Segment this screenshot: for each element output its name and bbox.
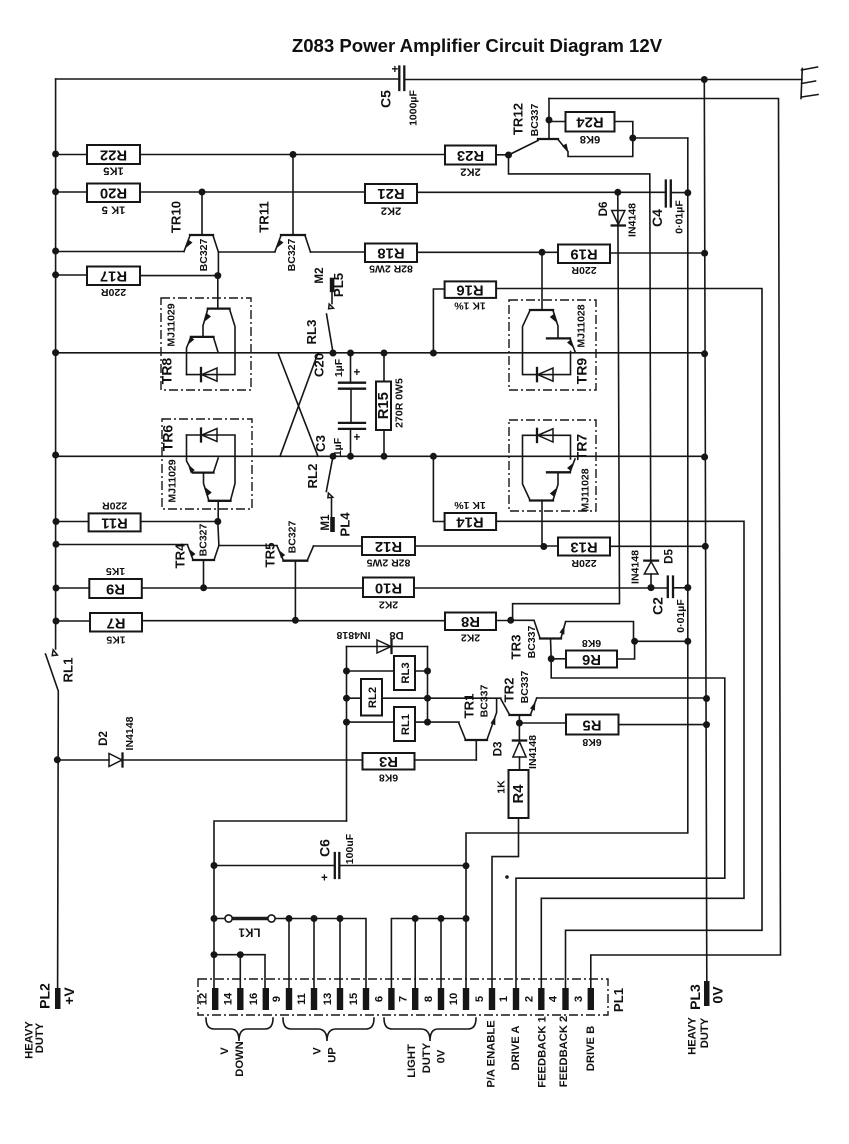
svg-text:DRIVE A: DRIVE A xyxy=(510,1026,522,1071)
svg-text:+: + xyxy=(321,872,328,885)
node rail-R20 xyxy=(52,188,59,195)
resistor R11 xyxy=(89,500,141,532)
relay contact RL2 xyxy=(305,456,333,517)
svg-text:RL2: RL2 xyxy=(305,464,320,489)
svg-text:4: 4 xyxy=(548,995,560,1002)
svg-text:PL5: PL5 xyxy=(331,273,346,297)
resistor R6 xyxy=(551,637,634,668)
node TR4c/TR6 base xyxy=(214,518,221,525)
wire pin13 drop xyxy=(339,919,341,989)
svg-text:220R: 220R xyxy=(101,286,127,298)
node TR11 collector xyxy=(290,151,297,158)
node pin14 top xyxy=(237,951,244,958)
darlington TR7 MJ11028 xyxy=(509,420,596,547)
pin 13 xyxy=(322,988,343,1010)
svg-text:1K5: 1K5 xyxy=(103,165,124,177)
pin 9 xyxy=(271,988,292,1010)
node rail row252 xyxy=(52,248,59,255)
node R15 bottom xyxy=(381,453,388,460)
svg-text:LK1: LK1 xyxy=(238,926,260,939)
svg-text:1K 1%: 1K 1% xyxy=(454,300,486,312)
resistor R8 xyxy=(445,613,496,644)
pin 14 xyxy=(223,988,244,1010)
svg-text:FEEDBACK 1: FEEDBACK 1 xyxy=(537,1016,549,1087)
wire drive A xyxy=(516,659,725,988)
svg-text:D2: D2 xyxy=(97,731,110,746)
svg-text:BC337: BC337 xyxy=(519,670,531,703)
svg-text:6: 6 xyxy=(374,996,386,1002)
svg-text:1µF: 1µF xyxy=(333,358,345,377)
node D6 top xyxy=(614,189,621,196)
wire +V top rail xyxy=(56,78,802,81)
node top 0V junction xyxy=(701,76,708,83)
svg-text:DOWN: DOWN xyxy=(234,1041,246,1076)
svg-text:BC337: BC337 xyxy=(529,103,541,136)
wire 0V rail vertical to PL3 xyxy=(704,80,707,982)
node R5 0V xyxy=(703,721,710,728)
svg-text:UP: UP xyxy=(327,1047,339,1063)
node C6 right xyxy=(463,862,470,869)
node RL2 right xyxy=(424,695,431,702)
svg-text:LIGHT: LIGHT xyxy=(406,1044,418,1078)
node TR10 collector row xyxy=(217,252,219,276)
pin PL4 M1 xyxy=(319,512,353,537)
darlington TR6 MJ11029 xyxy=(160,419,253,522)
svg-text:10: 10 xyxy=(448,993,460,1005)
wire row R22/R23 xyxy=(56,154,509,156)
svg-text:R22: R22 xyxy=(100,147,127,163)
svg-text:C20: C20 xyxy=(312,353,327,377)
node TR5 base xyxy=(292,617,299,624)
diode D8 xyxy=(336,629,427,653)
svg-text:R19: R19 xyxy=(570,245,597,261)
resistor R14 xyxy=(433,456,496,530)
svg-text:PL3: PL3 xyxy=(687,984,703,1010)
svg-text:220R: 220R xyxy=(102,500,128,512)
diode D3 xyxy=(492,723,540,770)
wire row 698 xyxy=(427,697,707,699)
wire pin7 drop xyxy=(414,919,416,989)
svg-text:RL3: RL3 xyxy=(400,662,412,683)
link LK1 xyxy=(225,915,275,939)
svg-text:1K 1%: 1K 1% xyxy=(454,499,486,511)
svg-text:R6: R6 xyxy=(582,651,601,667)
node row546 0V xyxy=(702,543,709,550)
svg-text:MJ11028: MJ11028 xyxy=(580,468,592,511)
svg-text:PL4: PL4 xyxy=(338,512,353,537)
svg-text:1K5: 1K5 xyxy=(106,565,125,577)
pin 2 xyxy=(524,988,545,1010)
svg-text:D5: D5 xyxy=(663,549,676,564)
svg-text:6K8: 6K8 xyxy=(582,736,601,748)
svg-text:HEAVY: HEAVY xyxy=(687,1017,699,1055)
wire row R17 xyxy=(56,274,218,277)
svg-text:R7: R7 xyxy=(107,614,126,630)
svg-text:C3: C3 xyxy=(313,435,328,452)
node row252 0V xyxy=(701,250,708,257)
node pin10 top xyxy=(463,915,470,922)
node R16 row353 xyxy=(430,350,437,357)
wire row R12/R13 xyxy=(314,545,706,547)
svg-text:0·01µF: 0·01µF xyxy=(674,200,686,234)
resistor R10 xyxy=(363,578,414,611)
node rail-R9 xyxy=(53,585,60,592)
node LK1 left xyxy=(211,915,218,922)
svg-text:IN4818: IN4818 xyxy=(336,629,370,641)
diode D5 xyxy=(509,155,676,588)
node TR12 emitter/R24 xyxy=(629,135,636,142)
svg-text:RL3: RL3 xyxy=(304,320,319,345)
svg-text:C2: C2 xyxy=(650,597,666,615)
resistor R4 xyxy=(496,770,529,818)
svg-text:R21: R21 xyxy=(377,185,404,201)
node C4 right xyxy=(684,189,691,196)
pin 1 xyxy=(498,988,519,1010)
node RL3 right xyxy=(424,668,431,675)
node R6 loop top xyxy=(631,638,638,645)
svg-text:13: 13 xyxy=(322,993,334,1005)
pin 15 xyxy=(348,988,369,1010)
svg-text:PL1: PL1 xyxy=(611,988,626,1012)
svg-text:6K8: 6K8 xyxy=(379,772,398,784)
node RL2 left xyxy=(343,695,350,702)
wire R4 to pin5 xyxy=(492,818,519,988)
svg-text:9: 9 xyxy=(271,996,283,1002)
svg-text:C4: C4 xyxy=(649,209,665,227)
node rail-D2 xyxy=(54,756,61,763)
svg-text:100uF: 100uF xyxy=(344,833,356,864)
resistor R7 xyxy=(90,613,142,646)
pin 11 xyxy=(296,988,317,1010)
pin PL5 M2 xyxy=(313,267,346,303)
svg-text:2K2: 2K2 xyxy=(381,205,402,217)
node C3 bottom xyxy=(347,453,354,460)
wire link row LK1 xyxy=(214,919,366,989)
svg-text:M2: M2 xyxy=(313,267,326,283)
svg-text:Z083 Power Amplifier Circuit D: Z083 Power Amplifier Circuit Diagram 12V xyxy=(292,35,663,56)
svg-text:IN4148: IN4148 xyxy=(627,203,639,237)
svg-text:V: V xyxy=(312,1047,324,1055)
svg-text:TR6: TR6 xyxy=(160,425,176,452)
capacitor C6 xyxy=(214,833,466,884)
node R6 row riser xyxy=(684,638,691,645)
svg-text:R5: R5 xyxy=(583,717,602,733)
svg-text:R8: R8 xyxy=(461,613,480,629)
capacitor C20 xyxy=(312,353,366,423)
svg-text:+V: +V xyxy=(61,987,77,1005)
capacitor C3 xyxy=(313,423,365,456)
transistor TR2 xyxy=(501,670,537,723)
svg-text:DUTY: DUTY xyxy=(421,1042,433,1073)
svg-text:V: V xyxy=(219,1047,231,1055)
resistor R23 xyxy=(445,146,496,178)
node R15 top xyxy=(381,350,388,357)
resistor R5 xyxy=(519,715,706,749)
node RL1 left xyxy=(343,719,350,726)
svg-text:15: 15 xyxy=(348,993,360,1005)
wire light duty bus xyxy=(391,919,466,989)
node row955 left xyxy=(211,951,218,958)
svg-text:6K8: 6K8 xyxy=(580,133,601,145)
relay contact RL1 xyxy=(46,650,76,988)
pin 5 xyxy=(474,988,495,1010)
wire cross diagonal A xyxy=(278,353,318,456)
svg-text:2K2: 2K2 xyxy=(379,599,398,611)
darlington TR9 MJ11028 xyxy=(509,252,596,390)
node TR7 base row546 xyxy=(540,543,547,550)
svg-text:0V: 0V xyxy=(710,986,726,1004)
svg-text:1: 1 xyxy=(498,996,510,1002)
wire row TR4 emitter xyxy=(56,544,188,546)
svg-text:D8: D8 xyxy=(389,629,403,641)
svg-text:R23: R23 xyxy=(457,147,484,163)
wire row R20/R21/C4 xyxy=(56,191,688,194)
svg-text:11: 11 xyxy=(296,993,308,1005)
node R8/TR3 base xyxy=(507,617,514,624)
node RL2 row457 xyxy=(330,453,337,460)
svg-text:TR1: TR1 xyxy=(462,694,477,719)
node R14 row457 xyxy=(430,453,437,460)
node R18/R19-TR9 base xyxy=(539,249,546,256)
svg-text:BC327: BC327 xyxy=(287,520,299,553)
capacitor C2 xyxy=(650,577,688,633)
node TR4 base xyxy=(200,584,207,591)
svg-text:220R: 220R xyxy=(571,557,597,569)
svg-text:1K: 1K xyxy=(496,780,508,794)
node row698 0V xyxy=(703,695,710,702)
resistor R22 xyxy=(87,145,140,177)
relay coil RL2 xyxy=(347,679,428,716)
node rail row353 xyxy=(52,349,59,356)
pin 12 xyxy=(198,988,219,1010)
svg-text:16: 16 xyxy=(248,993,260,1005)
svg-text:TR10: TR10 xyxy=(169,201,184,233)
node TR10 base xyxy=(199,189,206,196)
relay coil RL3 xyxy=(347,656,428,690)
node drive A dot artifact xyxy=(505,875,509,879)
transistor TR10 xyxy=(169,192,219,271)
pin 10 xyxy=(448,988,469,1010)
svg-text:TR2: TR2 xyxy=(502,678,517,703)
resistor R20 xyxy=(87,184,140,216)
svg-text:R12: R12 xyxy=(375,538,402,554)
node pin13 top xyxy=(337,915,344,922)
relay contact RL3 xyxy=(304,304,334,353)
svg-text:R17: R17 xyxy=(100,268,127,284)
pin 6 xyxy=(374,988,395,1010)
svg-text:MJ11029: MJ11029 xyxy=(166,303,178,346)
pin PL3 0V xyxy=(687,981,726,1055)
svg-text:DUTY: DUTY xyxy=(699,1017,711,1048)
transistor TR12 xyxy=(509,99,633,157)
svg-text:D3: D3 xyxy=(492,741,505,756)
wire R24 leads xyxy=(549,122,633,139)
wire row TR4c-TR5 xyxy=(219,545,277,547)
transistor TR11 xyxy=(257,155,311,272)
svg-text:R18: R18 xyxy=(377,244,404,260)
svg-text:IN4148: IN4148 xyxy=(630,550,642,584)
svg-text:RL2: RL2 xyxy=(367,687,379,708)
pin 3 xyxy=(573,988,594,1010)
node C2 right xyxy=(684,584,691,591)
resistor R16 xyxy=(433,281,496,353)
node row353 0V xyxy=(701,350,708,357)
svg-text:BC337: BC337 xyxy=(526,625,538,658)
transistor TR1 xyxy=(459,684,497,760)
resistor R19 xyxy=(558,245,610,277)
svg-text:MJ11029: MJ11029 xyxy=(167,459,179,502)
svg-text:IN4148: IN4148 xyxy=(124,716,136,750)
svg-text:R4: R4 xyxy=(511,784,527,804)
svg-text:BC327: BC327 xyxy=(198,523,210,556)
node rail-R11 xyxy=(53,518,60,525)
wire feedback2 R16 to pin4 xyxy=(496,289,762,989)
svg-text:C5: C5 xyxy=(378,90,394,108)
node row457 0V xyxy=(701,454,708,461)
resistor R18 xyxy=(365,244,417,275)
svg-text:82R 2W5: 82R 2W5 xyxy=(369,263,413,275)
node rail row457 xyxy=(52,452,59,459)
svg-text:R20: R20 xyxy=(100,185,127,201)
node pin11 top xyxy=(311,915,318,922)
svg-text:R15: R15 xyxy=(376,392,392,419)
node pin7 top xyxy=(412,915,419,922)
svg-text:+: + xyxy=(392,63,399,76)
svg-text:PL2: PL2 xyxy=(37,983,53,1009)
svg-text:+: + xyxy=(354,366,361,379)
node rail-R22 xyxy=(52,151,59,158)
svg-text:TR11: TR11 xyxy=(257,201,272,233)
svg-text:5: 5 xyxy=(474,996,486,1002)
svg-text:3: 3 xyxy=(573,996,585,1002)
wire row R11 xyxy=(56,521,218,523)
capacitor C4 xyxy=(649,181,686,234)
svg-text:BC327: BC327 xyxy=(286,238,298,271)
wire row R9/R10/C2 xyxy=(56,587,688,589)
node TR2 base/R5/D3 xyxy=(516,720,523,727)
transistor TR5 xyxy=(263,520,314,620)
wire V-up feed xyxy=(214,821,347,988)
brace light duty group xyxy=(384,1018,476,1041)
wire left +V rail xyxy=(55,79,57,649)
wire relay bus left xyxy=(346,647,348,822)
svg-text:P/A ENABLE: P/A ENABLE xyxy=(486,1020,498,1088)
svg-text:TR3: TR3 xyxy=(509,635,524,660)
relay coil RL1 xyxy=(347,707,428,741)
transistor TR4 xyxy=(173,522,219,588)
pin 8 xyxy=(423,988,444,1010)
svg-text:TR4: TR4 xyxy=(173,543,188,569)
wire row 457 xyxy=(56,455,705,457)
svg-text:DUTY: DUTY xyxy=(34,1022,46,1053)
wire pin11 drop xyxy=(313,919,315,989)
resistor R21 xyxy=(365,184,417,217)
brace V down group xyxy=(206,1018,273,1041)
node RL3 left xyxy=(343,668,350,675)
svg-text:R14: R14 xyxy=(456,513,484,529)
darlington TR8 MJ11029 xyxy=(159,276,252,390)
svg-text:6K8: 6K8 xyxy=(582,637,601,649)
wire relay bus right xyxy=(427,647,429,725)
svg-text:RL1: RL1 xyxy=(61,658,76,683)
brace V up group xyxy=(283,1018,374,1041)
node TR3 emitter/R6 xyxy=(548,655,555,662)
diode D6 xyxy=(513,192,639,620)
node pin8 top xyxy=(438,915,445,922)
svg-text:220R: 220R xyxy=(571,264,597,276)
svg-text:TR8: TR8 xyxy=(159,358,175,385)
wire riser C4/C2/R6 x688 xyxy=(466,138,688,988)
svg-text:7: 7 xyxy=(398,996,410,1002)
svg-text:12: 12 xyxy=(198,993,210,1005)
wire row R7/R8 xyxy=(56,620,511,623)
wire TR12 emitter node to riser xyxy=(633,137,688,139)
capacitor C5 xyxy=(378,63,420,126)
connector PL1 outline xyxy=(198,979,608,1015)
svg-text:C6: C6 xyxy=(317,839,333,857)
pin 16 xyxy=(248,988,269,1010)
node RL1 right xyxy=(424,719,431,726)
svg-text:1K 5: 1K 5 xyxy=(102,204,126,216)
svg-text:IN4148: IN4148 xyxy=(527,735,539,769)
wire drive B top run xyxy=(549,99,781,989)
svg-text:R16: R16 xyxy=(456,282,483,298)
pin PL2 +V xyxy=(24,983,78,1059)
svg-text:270R 0W5: 270R 0W5 xyxy=(394,378,406,428)
svg-text:0V: 0V xyxy=(436,1049,448,1063)
svg-text:82R 2W5: 82R 2W5 xyxy=(366,557,410,569)
svg-text:8: 8 xyxy=(423,996,435,1002)
svg-text:R11: R11 xyxy=(101,514,127,530)
svg-text:TR9: TR9 xyxy=(574,358,590,385)
svg-text:MJ11028: MJ11028 xyxy=(576,304,588,347)
node C6 left xyxy=(211,862,218,869)
resistor R3 xyxy=(363,753,477,784)
resistor R9 xyxy=(89,565,142,598)
svg-text:TR5: TR5 xyxy=(263,543,278,568)
svg-text:TR12: TR12 xyxy=(511,103,526,135)
svg-text:R3: R3 xyxy=(379,753,398,769)
diode D2 xyxy=(57,716,362,766)
resistor R15 xyxy=(376,353,406,456)
node RL3 row353 xyxy=(330,350,337,357)
node rail row545 xyxy=(53,541,60,548)
resistor R17 xyxy=(87,267,140,299)
svg-text:+: + xyxy=(354,431,361,444)
wire feedback1 R14 to pin2 xyxy=(496,521,744,988)
transistor TR3 xyxy=(509,620,634,659)
node pin9 top xyxy=(286,915,293,922)
wire pin9 drop xyxy=(288,919,290,989)
svg-text:R24: R24 xyxy=(576,114,604,130)
pin 7 xyxy=(398,988,419,1010)
node R23-TR12 base xyxy=(505,152,512,159)
svg-text:DRIVE B: DRIVE B xyxy=(585,1026,597,1071)
svg-text:2K2: 2K2 xyxy=(461,632,480,644)
wire row TR10/TR11/R18/R19 xyxy=(56,252,705,254)
node C20 top xyxy=(347,350,354,357)
node rail-R17 xyxy=(52,271,59,278)
wire row R6 to riser xyxy=(635,640,688,642)
ground earth symbol xyxy=(801,67,818,99)
svg-text:D6: D6 xyxy=(597,201,610,216)
svg-text:1K5: 1K5 xyxy=(106,634,125,646)
svg-text:RL1: RL1 xyxy=(400,714,412,735)
wire row 955 xyxy=(214,955,265,988)
wire row 353 xyxy=(56,352,705,354)
svg-text:14: 14 xyxy=(223,992,235,1005)
svg-text:R13: R13 xyxy=(570,538,597,554)
